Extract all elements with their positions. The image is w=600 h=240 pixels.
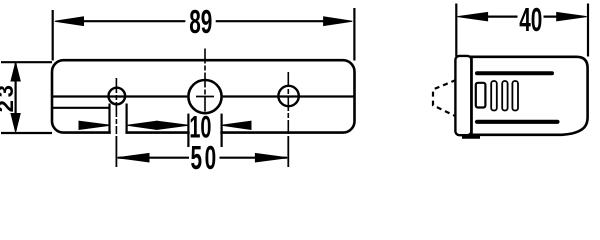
bottom edge gap at 10 text [190, 129, 221, 137]
front view: big central hole [188, 80, 221, 113]
side view: vent slat 1 [491, 81, 497, 111]
front view: left hole slot left edge [108, 104, 110, 134]
front view: left mounting hole [109, 88, 126, 105]
dim 50: dimension line [118, 157, 287, 159]
dim 89: left extension line [52, 10, 54, 61]
svg-text:50: 50 [191, 139, 219, 176]
dim 89: dimension line [82, 20, 325, 22]
dim 23: top extension line [1, 61, 52, 63]
front view: right hole centre line / 50-dim extension [287, 72, 289, 134]
dim 23: bottom arrowhead [11, 114, 20, 132]
dim 23: dimension line [15, 64, 17, 131]
dim 40: right arrowhead [557, 12, 587, 20]
dim 10: left tangent extension line [187, 114, 189, 147]
side view: hidden stud (dashed) [433, 80, 456, 116]
dim 40: right extension line [587, 4, 589, 57]
dim 40: left extension line [455, 4, 457, 57]
side view: bottom joint foot [462, 135, 480, 139]
svg-text:89: 89 [189, 3, 212, 40]
dim 23: bottom extension line [1, 132, 52, 134]
slot dim / dim 10: back-to-back arrowheads [127, 121, 157, 129]
dim 23: top arrowhead [11, 63, 20, 81]
side view: top rib bar [477, 71, 552, 75]
front view: lamp housing outline [52, 60, 355, 132]
side view: housing body [472, 57, 588, 135]
dim 10: right arrowhead [222, 121, 251, 129]
slot dim: left arrowhead with tail [79, 121, 110, 129]
dim 50: left arrowhead [117, 154, 149, 162]
svg-text:23: 23 [0, 82, 18, 112]
dim 89: right extension line [353, 8, 355, 61]
side view: bottom rib bar [477, 120, 558, 124]
front view: left inner edge line [53, 107, 109, 109]
side view: bulb holder box [476, 83, 486, 108]
dim 89: right arrowhead [324, 17, 353, 26]
front view: left hole centre line / 50-dim extension [115, 78, 117, 134]
bottom edge gap at slot [111, 129, 126, 137]
dim 10: right tangent extension line [221, 114, 223, 147]
front view: centre dash inside big hole [196, 96, 214, 98]
front view: left hole slot right edge [125, 104, 127, 134]
side view: vent slat 3 [512, 81, 518, 111]
front view: right mounting hole [278, 86, 298, 106]
side view: lens plate [455, 56, 471, 135]
front view: big hole centre line [204, 49, 206, 113]
dim 40: dimension line [487, 16, 558, 18]
svg-text:40: 40 [519, 1, 542, 38]
dim 50: right arrowhead [255, 154, 287, 162]
front view: horizontal centre line through holes [53, 95, 354, 97]
dim 40: left arrowhead [458, 12, 488, 20]
side view: vent slat 2 [502, 81, 507, 111]
dim 89: left arrowhead [55, 17, 84, 26]
